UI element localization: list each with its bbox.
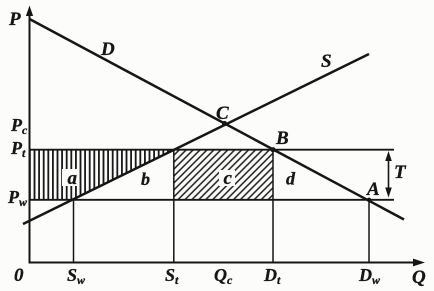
svg-text:S: S [321, 51, 332, 72]
svg-text:D: D [100, 39, 115, 60]
demand curve D [30, 19, 405, 220]
svg-text:a: a [68, 168, 78, 189]
svg-text:A: A [366, 179, 380, 200]
svg-text:b: b [141, 169, 150, 189]
shaded region a (vertical hatching) [30, 151, 175, 200]
vertical line at Dw [368, 200, 370, 263]
shaded region c (diagonal hatching) [174, 151, 273, 200]
supply curve S [23, 54, 369, 224]
svg-text:Q: Q [412, 267, 426, 288]
node C dot [222, 121, 227, 126]
svg-text:c: c [224, 168, 233, 189]
vertical line at Sw [73, 200, 75, 263]
node A dot [367, 198, 371, 202]
P axis arrowhead [26, 6, 33, 17]
svg-text:B: B [275, 128, 289, 149]
P axis (vertical) [29, 9, 31, 264]
label patch under c [219, 170, 235, 186]
svg-text:P: P [8, 9, 21, 30]
svg-text:C: C [216, 103, 229, 124]
Q axis arrowhead [413, 259, 425, 267]
price line Pt (horizontal) [30, 149, 395, 151]
svg-text:d: d [286, 169, 296, 189]
vertical line at Dt [272, 150, 274, 263]
price line Pw (horizontal) [30, 199, 395, 201]
vertical line at St [173, 150, 175, 263]
node B dot [270, 147, 275, 152]
svg-text:0: 0 [14, 265, 24, 286]
label patch under a [62, 169, 78, 186]
tariff T double arrow [388, 155, 390, 193]
svg-text:T: T [394, 162, 407, 183]
Q axis (horizontal) [29, 262, 418, 264]
